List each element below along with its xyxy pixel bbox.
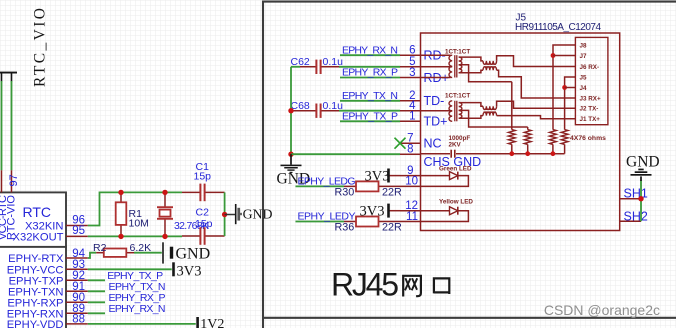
svg-text:SH1: SH1: [624, 187, 648, 201]
capacitor C1 15p (series, top rail): [182, 161, 225, 201]
pin VCC-RTC (top pin, x=1.5): [0, 170, 9, 240]
labels J8..J1 pin names: [580, 42, 602, 123]
svg-text:15p: 15p: [195, 218, 213, 230]
IC U? RTC box (upper part): [0, 192, 66, 247]
wire + net label EPHY TX N (pin 2): [340, 90, 400, 102]
ground flag GND (EPHY-RTX): [163, 242, 210, 263]
svg-text:J7: J7: [580, 53, 588, 60]
resistor R2 6.2K (horizontal): [93, 242, 151, 257]
wire + power flag 3V3 (green LED): [365, 169, 401, 185]
wire: J8 row with R3 drop: [553, 45, 575, 130]
wire: R2 to GND flag: [134, 252, 162, 254]
transformer T-TX windings: [421, 101, 462, 122]
internal HV capacitor 1000pF 2KV: [421, 135, 565, 158]
resistor R36 22R: [335, 217, 403, 234]
svg-text:SH2: SH2: [624, 209, 648, 223]
wire + net label EPHY RX P (pin 3): [340, 67, 400, 79]
pin 3 RD+: [400, 67, 449, 85]
junction: J7 tap on R3 drop: [551, 53, 556, 58]
choke L-RX (common mode): [483, 61, 497, 70]
svg-text:J2 TX-: J2 TX-: [580, 106, 599, 113]
crystal X1 32.768K: [157, 192, 209, 236]
svg-text:EPHY_TX_N: EPHY_TX_N: [342, 90, 398, 102]
pin 93 EPHY-VCC: [7, 259, 88, 276]
junction: GND tap node: [222, 212, 227, 217]
label HR911105A_C12074 value: [515, 22, 601, 33]
wire: RTC_VIO to pin (x=1.5): [1, 81, 3, 170]
svg-text:97: 97: [8, 174, 20, 186]
ground flag GND (crystal load caps): [236, 204, 273, 224]
wire: choke TX bottom out to J1 TX+ row: [497, 116, 576, 119]
svg-text:EPHY_RX_N: EPHY_RX_N: [109, 303, 166, 315]
pin 90 EPHY-RXP: [7, 292, 87, 309]
svg-text:Yellow LED: Yellow LED: [439, 198, 473, 205]
junction: chassis node: [288, 152, 293, 157]
svg-text:EPHY_RX_P: EPHY_RX_P: [342, 67, 398, 79]
wire + net label EPHY_TX_P: [88, 270, 163, 282]
title text RJ45 + CJK wangkou: [331, 267, 449, 303]
pin 1 TD+: [400, 111, 447, 129]
wire: T-TX secondary top to choke: [459, 103, 483, 107]
junction: R1 bottom node: [118, 234, 123, 239]
svg-text:EPHY_LEDG: EPHY_LEDG: [298, 175, 356, 187]
wire + net label EPHY_LEDY: [296, 211, 356, 223]
pin 88 EPHY-VDD: [7, 314, 88, 328]
resistor R1 10M (vertical): [116, 192, 149, 236]
svg-text:4X76 ohms: 4X76 ohms: [570, 135, 606, 142]
wire + net label EPHY TX P (pin 1): [340, 110, 400, 122]
wire: node to pin 8: [291, 153, 400, 155]
wire + net label EPHY_RX_N: [88, 303, 166, 315]
wire: J7 row: [553, 55, 575, 57]
svg-text:15p: 15p: [194, 171, 212, 183]
pin 8 CHS GND: [400, 144, 481, 169]
svg-text:95: 95: [72, 225, 85, 237]
wire: T-RX secondary bottom to choke: [459, 70, 483, 73]
wire + net label EPHY_LEDG: [296, 175, 356, 187]
svg-text:1V2: 1V2: [200, 317, 224, 328]
svg-text:NC: NC: [424, 137, 442, 151]
svg-text:88: 88: [72, 314, 85, 326]
wire + net label EPHY RX N (pin 6): [340, 44, 400, 56]
svg-text:3: 3: [409, 67, 415, 79]
wire: X32KIN up to osc top rail: [88, 192, 182, 225]
termination resistor bank 4X76 ohms: [508, 82, 568, 154]
wire: choke TX top out to J2 TX- row: [497, 101, 576, 108]
svg-text:J8: J8: [580, 42, 588, 49]
wire: choke RX top out to J6 RX- row: [497, 56, 576, 67]
net flag RTC_VIO (vertical, top-left): [0, 8, 49, 87]
wire + power flag 3V3 (yellow LED): [360, 204, 401, 220]
svg-text:10M: 10M: [129, 218, 149, 230]
pin 91 EPHY-TXN: [8, 281, 88, 298]
svg-text:J3 RX+: J3 RX+: [580, 95, 602, 102]
pin 4 (TX center tap): [400, 100, 421, 112]
pin 2 TD-: [400, 90, 444, 108]
svg-text:J5: J5: [580, 74, 588, 81]
resistor R30 22R: [335, 181, 403, 198]
svg-text:RJ45: RJ45: [331, 267, 399, 303]
svg-text:22R: 22R: [382, 187, 402, 199]
junctions: resistor bank commons: [509, 151, 555, 156]
svg-text:C2: C2: [196, 207, 210, 219]
junction: crystal top node: [162, 190, 167, 195]
wire: T-TX secondary bottom to choke: [459, 116, 483, 119]
svg-text:3V3: 3V3: [177, 263, 202, 279]
wire: J5 row with R4 drop: [565, 77, 576, 130]
svg-text:6: 6: [409, 45, 415, 57]
wire: RTC_VIO to pin 97 (x=11.5): [11, 81, 13, 170]
wire: pin88 to 1V2: [88, 323, 196, 325]
pin SH1: [620, 187, 648, 201]
svg-text:RTC: RTC: [23, 204, 52, 220]
pin 97 RTC-VIO (top pin, x=11.5): [6, 170, 21, 240]
wire: C62 to pin 5: [339, 66, 400, 68]
junction: C68 tap: [288, 108, 293, 113]
svg-text:C62: C62: [291, 56, 310, 68]
wire: T-RX secondary top to choke: [459, 57, 483, 61]
svg-text:1CT:1CT: 1CT:1CT: [445, 93, 470, 100]
svg-text:EPHY-VDD: EPHY-VDD: [7, 319, 64, 328]
svg-text:J6 RX-: J6 RX-: [580, 64, 600, 71]
svg-text:J4: J4: [580, 85, 588, 92]
svg-text:R36: R36: [335, 222, 355, 234]
capacitor C62 0.1u: [291, 56, 344, 74]
pin 12 (LED yellow anode, 3V3): [400, 200, 421, 212]
pin 94 EPHY-RTX: [8, 248, 88, 265]
svg-text:EPHY_LEDY: EPHY_LEDY: [298, 211, 356, 223]
svg-text:HR911105A_C12074: HR911105A_C12074: [515, 22, 601, 33]
ground GND (shield): [626, 153, 660, 181]
svg-text:GND: GND: [176, 245, 211, 262]
svg-text:1CT:1CT: 1CT:1CT: [445, 48, 470, 55]
svg-text:J1 TX+: J1 TX+: [580, 116, 601, 123]
svg-text:RTC_VIO: RTC_VIO: [32, 8, 49, 87]
yellow LED (inside J5): [421, 198, 474, 221]
svg-text:GND: GND: [243, 206, 273, 221]
power flag 3V3 (EPHY-VCC): [172, 262, 201, 279]
junction: R1 top node: [118, 190, 123, 195]
wire: T-RX secondary center tap to R termination: [459, 65, 512, 82]
svg-text:X32KOUT: X32KOUT: [13, 232, 64, 244]
wire: node to GND flag: [225, 214, 237, 216]
capacitor C68 0.1u: [291, 100, 344, 118]
wire: X32KOUT bottom rail: [88, 235, 182, 237]
svg-text:EPHY-RTX: EPHY-RTX: [8, 253, 64, 265]
svg-text:TD-: TD-: [424, 94, 445, 108]
wire: T-TX secondary center tap to R termination: [459, 110, 528, 127]
pin 10 (green LED cathode): [400, 176, 421, 188]
transformer T-RX windings: [421, 55, 462, 77]
green LED (inside J5): [421, 165, 472, 186]
svg-text:11: 11: [406, 211, 418, 223]
svg-text:TD+: TD+: [424, 115, 448, 129]
internal RJ45 jack box: [575, 37, 608, 124]
pin 11 (yellow LED cathode): [400, 211, 421, 223]
pin 5 (RX center tap): [400, 56, 421, 68]
IC RTC box (lower part, EPHY pins): [0, 247, 66, 328]
pin 96 X32KIN: [25, 214, 88, 232]
svg-text:R30: R30: [335, 187, 355, 199]
svg-text:CSDN @orange2c: CSDN @orange2c: [544, 302, 660, 318]
pin 9 (LED green anode, 3V3): [400, 165, 421, 177]
pin 92 EPHY-TXP: [9, 270, 88, 287]
svg-text:10: 10: [405, 176, 418, 188]
svg-text:EPHY_RX_N: EPHY_RX_N: [342, 44, 398, 56]
label J5 designator: [516, 13, 527, 24]
label 1CT:1CT (TX transformer): [445, 93, 470, 100]
choke L-TX (common mode): [483, 106, 497, 115]
chassis ground GND (bottom left of J5): [277, 154, 311, 187]
connector J5 component body: [421, 33, 620, 231]
label 4X76 ohms: [570, 135, 606, 142]
svg-text:1: 1: [409, 111, 415, 123]
junction: crystal bottom node: [162, 234, 167, 239]
junction: J4 tap on R4 drop: [562, 85, 567, 90]
junction: SH1 node: [638, 196, 643, 201]
wire: C62/C68 common vertical: [290, 67, 292, 154]
svg-text:GND: GND: [626, 153, 660, 170]
capacitor C2 15p (series, bottom rail): [182, 207, 225, 245]
power flag 1V2 (EPHY-VDD): [196, 317, 224, 328]
pin 6 RD-: [400, 45, 446, 63]
wire + net label EPHY_TX_N: [88, 281, 166, 293]
transformer T-RX (with center tap): [421, 54, 451, 56]
svg-text:R2: R2: [93, 242, 107, 254]
watermark CSDN @orange2c: [544, 302, 660, 318]
svg-text:EPHY_TX_P: EPHY_TX_P: [342, 110, 398, 122]
label 1CT:1CT (RX transformer): [445, 48, 470, 55]
pin 95 X32KOUT: [13, 225, 88, 243]
wire + net label EPHY_RX_P: [88, 292, 166, 304]
frame: schematic sheet border: [263, 2, 676, 328]
svg-text:Green LED: Green LED: [439, 165, 472, 172]
pin SH2: [620, 209, 648, 223]
wire: C1 right to C2 right (vertical): [224, 192, 226, 236]
wire: choke RX bottom out to J3 RX+ row: [497, 70, 576, 98]
wire: J4 row: [565, 87, 576, 89]
pin 7 NC with no-connect X: [395, 133, 442, 151]
wire: pin93 to 3V3: [88, 268, 172, 270]
wire: C68 to pin 4: [339, 110, 400, 112]
wire: SH1/SH2 common: [640, 180, 642, 221]
svg-text:2KV: 2KV: [449, 142, 462, 149]
pin 89 EPHY-RXN: [7, 303, 88, 320]
svg-text:22R: 22R: [382, 222, 402, 234]
wire: pin94 to R2: [88, 253, 96, 258]
